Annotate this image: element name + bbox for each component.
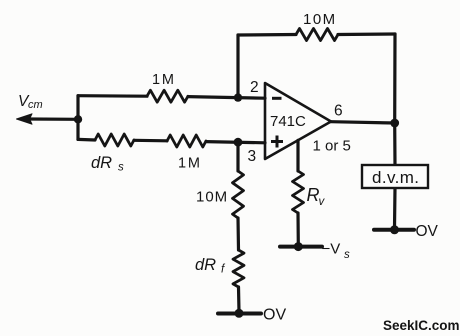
svg-text:s: s xyxy=(118,162,124,174)
Vcm arrowhead xyxy=(17,114,33,124)
node A input junction xyxy=(74,115,82,123)
resistor 10M feedback xyxy=(296,29,338,41)
wire pin2 node up xyxy=(236,35,239,98)
svg-text:SeekIC.com: SeekIC.com xyxy=(383,318,460,333)
svg-text:741C: 741C xyxy=(270,113,306,130)
wire node3 down to 10M xyxy=(236,142,239,171)
node pin3 junction xyxy=(234,138,243,147)
svg-text:2: 2 xyxy=(250,79,259,96)
op-amp inverting input minus sign xyxy=(272,97,282,100)
wire pin 1or5 stub down xyxy=(296,140,299,171)
resistor Rv xyxy=(293,171,304,213)
svg-text:−V: −V xyxy=(322,241,341,258)
svg-text:d.v.m.: d.v.m. xyxy=(372,168,419,187)
wire bottom branch right to pin 3 xyxy=(206,142,265,143)
svg-text:OV: OV xyxy=(416,223,439,240)
svg-text:cm: cm xyxy=(28,99,43,111)
wire feedback top left xyxy=(238,33,296,37)
wire feedback top right xyxy=(338,32,395,36)
op-amp U1 741C triangle xyxy=(265,83,331,159)
wire dvm to ground xyxy=(393,188,397,228)
svg-text:3: 3 xyxy=(248,148,257,165)
svg-text:1 or 5: 1 or 5 xyxy=(313,138,351,155)
svg-text:1M: 1M xyxy=(152,72,176,88)
wire dRf to ground xyxy=(237,287,241,312)
svg-text:dR: dR xyxy=(91,154,112,172)
ground bar below dRf xyxy=(218,312,261,316)
wire output node down to dvm xyxy=(393,123,396,165)
node output junction xyxy=(390,119,399,128)
svg-text:1M: 1M xyxy=(178,156,202,172)
svg-text:dR: dR xyxy=(195,256,216,274)
wire top branch right to pin 2 xyxy=(188,97,265,99)
dvm instrument box xyxy=(362,165,428,188)
wire bottom branch mid xyxy=(134,139,167,143)
resistor 1M lower xyxy=(167,135,206,147)
svg-text:v: v xyxy=(319,196,326,208)
ground bar -Vs xyxy=(280,245,322,249)
resistor dRs xyxy=(95,134,134,146)
svg-text:s: s xyxy=(344,249,350,261)
wire Vcm arrow lead xyxy=(28,117,78,121)
svg-text:6: 6 xyxy=(334,103,343,120)
svg-text:f: f xyxy=(221,264,226,276)
wire bottom branch left xyxy=(78,138,95,142)
op-amp non-inverting input plus sign xyxy=(271,136,283,148)
wire left vertical between branches xyxy=(76,96,79,140)
wire feedback right vertical xyxy=(393,34,396,123)
svg-text:10M: 10M xyxy=(303,11,337,28)
resistor 1M upper xyxy=(147,90,188,102)
wire top branch left xyxy=(78,94,147,98)
wire Rv to ground xyxy=(296,213,299,245)
ground bar below dvm xyxy=(374,228,414,232)
wire op-amp output pin 6 xyxy=(331,122,395,123)
svg-text:10M: 10M xyxy=(196,189,228,206)
resistor 10M vertical xyxy=(233,171,244,218)
node pin2 junction xyxy=(234,93,242,101)
svg-text:OV: OV xyxy=(263,307,286,324)
resistor dRf xyxy=(233,250,244,287)
wire between 10M and dRf xyxy=(236,218,240,250)
